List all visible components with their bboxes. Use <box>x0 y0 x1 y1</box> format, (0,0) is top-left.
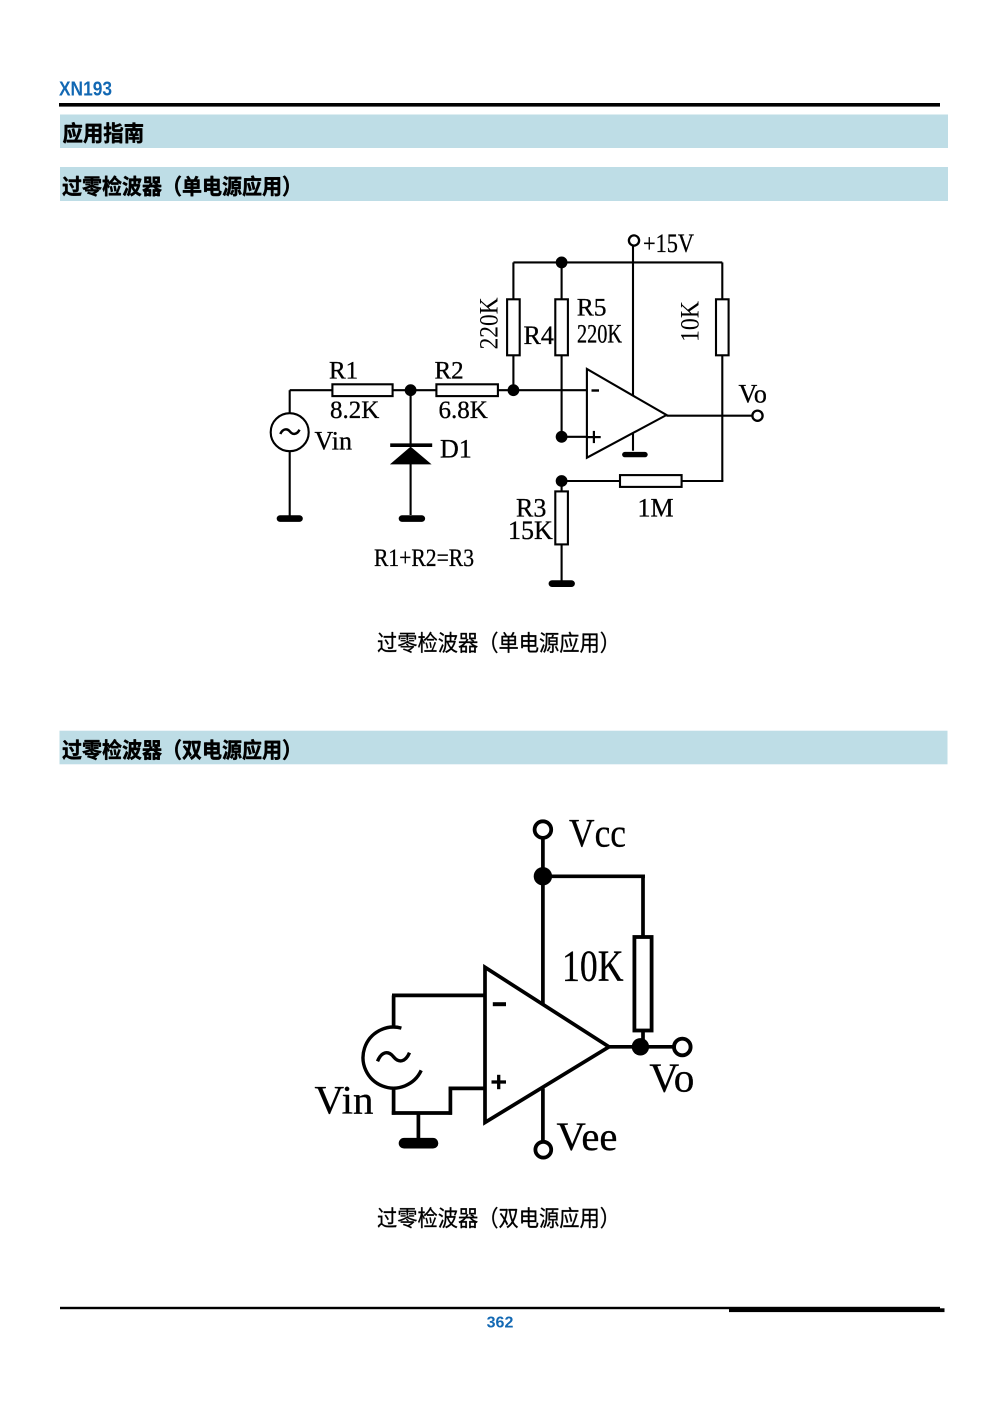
wire Vin bottom to noninverting input <box>392 1088 396 1115</box>
svg-text:362: 362 <box>487 1315 514 1332</box>
op-amp U1 <box>587 369 667 458</box>
terminal Vo <box>752 411 762 421</box>
node junction output <box>632 1038 649 1055</box>
wire feedback right <box>682 480 724 482</box>
wire V+ supply <box>632 245 634 451</box>
wire input from Vin to R1 <box>290 389 333 391</box>
footer rule thick segment <box>729 1308 945 1312</box>
svg-text:Vee: Vee <box>557 1114 618 1159</box>
svg-text:8.2K: 8.2K <box>330 397 379 424</box>
wire output <box>609 1045 676 1049</box>
wire R1 to R2 <box>393 389 437 391</box>
svg-text:10K: 10K <box>562 942 624 991</box>
svg-text:Vo: Vo <box>739 380 767 409</box>
wire top rail <box>513 261 722 263</box>
ground (Vin) <box>280 515 300 522</box>
terminal Vo <box>674 1039 691 1056</box>
resistor R5 <box>555 299 568 355</box>
node junction top rail / R5 <box>556 257 568 269</box>
op-amp U2 <box>485 967 609 1122</box>
node junction R4/220K bottom <box>508 384 520 396</box>
svg-text:Vo: Vo <box>649 1055 694 1101</box>
wire feedback left <box>562 480 621 482</box>
source Vin <box>289 390 291 414</box>
node junction Vcc <box>534 867 552 885</box>
section banner 过零检波器（单电源应用） <box>60 167 948 201</box>
svg-text:R1+R2=R3: R1+R2=R3 <box>374 545 474 572</box>
wire inverting input <box>392 994 485 998</box>
svg-text:Vin: Vin <box>315 1077 374 1122</box>
ground (R3) <box>552 580 572 587</box>
pin plus marker <box>587 436 601 438</box>
svg-text:XN193: XN193 <box>59 78 112 101</box>
wire R5 branch <box>561 262 563 300</box>
svg-text:+15V: +15V <box>643 229 694 258</box>
svg-text:6.8K: 6.8K <box>439 397 488 424</box>
svg-text:R2: R2 <box>435 358 464 385</box>
wire Vee supply <box>541 1089 545 1142</box>
svg-text:R4: R4 <box>524 321 554 350</box>
ground (D1) <box>402 515 422 522</box>
svg-text:1M: 1M <box>638 493 674 522</box>
source Vin <box>392 995 396 1027</box>
node junction noninverting input <box>556 431 568 443</box>
wire 10K branch <box>721 262 723 300</box>
node junction D1 <box>405 384 417 396</box>
resistor 220K (R4) <box>507 299 520 355</box>
terminal Vcc <box>535 821 552 838</box>
resistor R1 <box>332 384 392 396</box>
svg-text:R5: R5 <box>577 293 607 322</box>
resistor R3 <box>555 491 568 544</box>
ground (Vin) <box>404 1138 433 1149</box>
ground (op-amp) <box>625 452 645 457</box>
resistor R2 <box>436 384 498 396</box>
caption 过零检波器（双电源应用） <box>378 1207 606 1229</box>
wire V+ supply <box>541 876 545 1004</box>
wire 220K branch <box>512 262 514 300</box>
footer rule thin <box>60 1307 940 1309</box>
resistor 10K <box>634 937 651 1031</box>
wire ground stub <box>417 1113 421 1139</box>
svg-text:220K: 220K <box>577 319 622 348</box>
resistor 10K <box>716 299 729 355</box>
node junction feedback <box>556 475 568 487</box>
wire noninverting input <box>562 436 587 438</box>
svg-text:R1: R1 <box>329 358 358 385</box>
resistor 1M <box>620 475 682 487</box>
wire Vcc to junction <box>541 838 545 876</box>
svg-text:Vin: Vin <box>315 426 352 455</box>
wire 10K to output node <box>641 1031 645 1047</box>
section banner 过零检波器（双电源应用） <box>60 731 948 765</box>
diode D1 <box>410 390 412 443</box>
svg-text:Vcc: Vcc <box>569 810 626 855</box>
wire R2 to op-amp inverting input <box>498 389 588 391</box>
pin plus marker <box>492 1080 507 1083</box>
wire Vin to ground <box>289 451 291 516</box>
svg-text:D1: D1 <box>440 435 472 464</box>
wire R3 branch <box>561 481 563 492</box>
svg-text:15K: 15K <box>508 516 553 545</box>
pin minus marker <box>592 389 600 391</box>
caption 过零检波器（单电源应用） <box>378 632 606 654</box>
section banner 应用指南 <box>60 115 948 149</box>
svg-text:220K: 220K <box>474 297 504 349</box>
header rule <box>59 103 940 107</box>
svg-text:10K: 10K <box>675 301 705 342</box>
wire output <box>667 415 754 417</box>
terminal Vee <box>535 1142 551 1158</box>
wire to 10K resistor <box>543 874 645 878</box>
terminal +15V <box>629 235 639 245</box>
pin minus marker <box>493 1002 506 1006</box>
